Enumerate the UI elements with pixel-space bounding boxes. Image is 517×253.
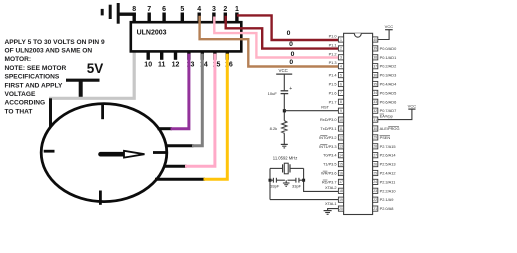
microcontroller U1 AT89C51 body <box>344 33 373 214</box>
svg-text:P2.2/A10: P2.2/A10 <box>380 188 397 193</box>
svg-text:11: 11 <box>339 127 343 131</box>
crystal X1 11.0592 MHz <box>270 156 304 174</box>
svg-text:NOTE: SEE MOTOR: NOTE: SEE MOTOR <box>5 65 67 72</box>
svg-text:P1.1: P1.1 <box>329 42 337 47</box>
svg-text:TxD/P3.1: TxD/P3.1 <box>320 126 336 131</box>
svg-text:0: 0 <box>289 59 293 66</box>
MCU left pin 15 T1/P3.5 <box>323 162 344 167</box>
svg-text:33pF: 33pF <box>292 183 302 188</box>
MCU left pin 18 XTAL2 <box>325 185 344 194</box>
MCU right pin 34 P0.5/AD5 <box>373 90 397 95</box>
svg-text:XTAL1: XTAL1 <box>325 201 337 206</box>
MCU left pin 5 P1.4 <box>329 73 344 78</box>
MCU right pin 35 P0.4/AD4 <box>373 81 397 86</box>
ULN2003 bottom pin 14 <box>200 51 208 68</box>
wire ULN2003 pin 1 to MCU P1.0 (dark red) <box>237 15 339 40</box>
svg-text:16: 16 <box>339 171 343 175</box>
svg-text:27: 27 <box>373 154 377 158</box>
driver U2 ULN2003 body <box>131 22 242 51</box>
svg-text:MOTOR:: MOTOR: <box>5 56 32 63</box>
svg-text:10uF: 10uF <box>268 91 278 96</box>
svg-text:8: 8 <box>340 100 342 104</box>
MCU right pin 33 P0.6/AD6 <box>373 99 397 104</box>
wire crystal left branch <box>269 168 271 199</box>
svg-text:15: 15 <box>339 162 343 166</box>
svg-text:23: 23 <box>373 189 377 193</box>
svg-text:P0.1/AD1: P0.1/AD1 <box>380 55 397 60</box>
svg-text:P2.3/A11: P2.3/A11 <box>380 179 396 184</box>
svg-text:8.2k: 8.2k <box>270 126 278 131</box>
svg-text:P2.1/A9: P2.1/A9 <box>380 197 394 202</box>
capacitor C1 33pF <box>270 178 285 189</box>
power VCC at MCU pin 40 <box>378 24 393 39</box>
svg-text:4: 4 <box>197 6 201 13</box>
svg-text:37: 37 <box>373 65 377 69</box>
MCU right pin 39 P0.0/AD0 <box>373 46 397 51</box>
svg-text:30: 30 <box>373 127 377 131</box>
svg-text:1: 1 <box>235 6 239 13</box>
MCU right pin 23 P2.2/A10 <box>373 188 397 193</box>
svg-text:19: 19 <box>339 198 343 202</box>
svg-text:10: 10 <box>144 62 152 69</box>
MCU left pin 4 P1.3 <box>329 60 344 69</box>
svg-text:T0/P3.4: T0/P3.4 <box>323 153 337 158</box>
svg-text:17: 17 <box>339 180 343 184</box>
MCU right pin 28 P2.7/A15 <box>373 144 396 149</box>
ULN2003 top pin 1 <box>235 6 239 22</box>
power 5V bar symbol <box>66 80 100 97</box>
svg-text:0: 0 <box>289 41 293 48</box>
MCU right pin 29 PSEN <box>373 135 391 140</box>
svg-text:38: 38 <box>373 56 377 60</box>
svg-text:5: 5 <box>340 73 342 77</box>
svg-text:0: 0 <box>287 30 291 37</box>
wire crystal right branch to XTAL2 <box>304 168 339 191</box>
MCU left pin 1 P1.0 <box>329 34 344 43</box>
MCU left pin 6 P1.5 <box>329 81 344 86</box>
svg-text:0: 0 <box>291 51 295 58</box>
svg-text:P1.3: P1.3 <box>329 60 337 65</box>
capacitor C2 33pF <box>288 178 304 189</box>
MCU right pin 30 ALE/PROG <box>373 126 400 131</box>
svg-text:13: 13 <box>339 145 343 149</box>
ULN2003 top pin 7 <box>147 6 151 22</box>
MCU right pin 22 P2.1/A9 <box>373 197 394 202</box>
svg-text:TO THAT: TO THAT <box>5 108 33 115</box>
svg-text:7: 7 <box>147 6 151 13</box>
wire RST node to MCU RST pin <box>284 110 338 112</box>
MCU left pin 20 GND <box>338 206 343 211</box>
svg-text:VOLTAGE: VOLTAGE <box>5 91 36 98</box>
svg-text:3: 3 <box>212 6 216 13</box>
wire 5V rail to ULN2003 pin 9 <box>49 53 134 99</box>
svg-text:18: 18 <box>339 189 343 193</box>
motor tick 3 oclock <box>153 151 166 154</box>
svg-text:5: 5 <box>180 6 184 13</box>
svg-text:7: 7 <box>340 91 342 95</box>
svg-text:XTAL2: XTAL2 <box>325 185 337 190</box>
svg-text:SPECIFICATIONS: SPECIFICATIONS <box>5 74 60 81</box>
note text block <box>5 39 105 116</box>
MCU left pin 9 RST <box>321 105 343 114</box>
svg-text:FIRST AND APPLY: FIRST AND APPLY <box>5 82 63 89</box>
MCU right pin 32 P0.7/AD7 <box>373 108 397 113</box>
ULN2003 top pin 3 <box>212 6 216 22</box>
motor tick 9 oclock <box>44 150 55 153</box>
svg-text:12: 12 <box>172 62 180 69</box>
MCU left pin 8 P1.7 <box>329 99 344 104</box>
svg-text:RST: RST <box>321 105 329 110</box>
svg-text:33pF: 33pF <box>270 183 280 188</box>
ULN2003 top pin 2 <box>223 6 227 22</box>
MCU left pin 12 INT0/P3.2 <box>319 135 344 140</box>
junction RST node <box>283 109 286 112</box>
MCU right pin 31 EA/VPP <box>373 113 393 122</box>
svg-text:P2.5/A13: P2.5/A13 <box>380 162 396 167</box>
ULN2003 top pin 8 <box>132 6 136 22</box>
svg-text:8: 8 <box>132 6 136 13</box>
svg-text:P1.5: P1.5 <box>329 82 337 87</box>
motor M1 body <box>41 104 167 202</box>
svg-text:22: 22 <box>373 198 377 202</box>
svg-text:1: 1 <box>340 38 342 42</box>
wire ULN2003 pin 4 to MCU P1.3 (brown) <box>200 16 339 67</box>
MCU left pin 3 P1.2 <box>329 51 344 60</box>
MCU right pin 38 P0.1/AD1 <box>373 55 397 60</box>
wire ULN2003 pin 2 to MCU P1.1 (dark red) <box>226 16 339 49</box>
ULN2003 top pin 4 <box>197 6 201 22</box>
svg-text:OF ULN2003 AND SAME ON: OF ULN2003 AND SAME ON <box>5 48 93 55</box>
MCU right pin 37 P0.2/AD2 <box>373 64 397 69</box>
svg-text:14: 14 <box>339 154 343 158</box>
svg-text:P1.7: P1.7 <box>329 99 337 104</box>
svg-text:P0.5/AD5: P0.5/AD5 <box>380 90 397 95</box>
MCU left pin 2 P1.1 <box>329 42 344 51</box>
svg-text:11: 11 <box>158 62 166 69</box>
svg-text:4: 4 <box>340 65 342 69</box>
ground at ULN2003 pin 8 <box>102 3 136 24</box>
svg-text:P1.0: P1.0 <box>329 34 338 39</box>
MCU right pin 21 P2.0/A8 <box>373 206 394 211</box>
power VCC at MCU pin 31 EA <box>378 104 416 120</box>
wire motor coil C to ULN pin 15 (black+pink) <box>164 165 187 168</box>
MCU left pin 7 P1.6 <box>329 90 344 95</box>
svg-text:10: 10 <box>339 118 343 122</box>
motor tick 12 oclock <box>101 105 104 120</box>
svg-text:40: 40 <box>373 38 377 42</box>
MCU right pin 36 P0.3/AD3 <box>373 73 397 78</box>
MCU left pin 19 XTAL1 <box>325 197 344 206</box>
svg-text:ACCORDING: ACCORDING <box>5 100 46 107</box>
svg-text:26: 26 <box>373 162 377 166</box>
svg-text:21: 21 <box>373 207 377 211</box>
ground MCU pin 20 <box>324 211 332 215</box>
svg-text:P2.6/A14: P2.6/A14 <box>380 153 397 158</box>
svg-text:VCC: VCC <box>385 24 394 29</box>
ULN2003 bottom pin 12 <box>172 51 180 68</box>
ground crystal center <box>283 180 290 186</box>
MCU right pin 26 P2.5/A13 <box>373 162 396 167</box>
svg-text:33: 33 <box>373 100 377 104</box>
MCU left pin 17 RD/P3.7 <box>322 179 344 184</box>
svg-text:6: 6 <box>340 82 342 86</box>
junction crystal left node <box>269 179 272 182</box>
ULN2003 bottom pin 16 <box>225 51 233 68</box>
capacitor C3 10uF <box>268 86 293 96</box>
svg-text:36: 36 <box>373 73 377 77</box>
MCU right pin 24 P2.3/A11 <box>373 179 396 184</box>
svg-text:P1.6: P1.6 <box>329 90 337 95</box>
ULN2003 bottom pin 11 <box>158 51 166 68</box>
resistor R1 8.2k <box>270 121 287 134</box>
svg-text:31: 31 <box>373 118 377 122</box>
svg-text:11.0592 MHz: 11.0592 MHz <box>273 156 298 161</box>
wire MCU pin 20 GND <box>328 209 339 211</box>
svg-text:ULN2003: ULN2003 <box>137 30 167 37</box>
svg-text:24: 24 <box>373 180 377 184</box>
motor tick 6 oclock <box>99 191 102 205</box>
svg-text:P1.2: P1.2 <box>329 51 337 56</box>
MCU left pin 10 RxD/P3.0 <box>320 117 344 122</box>
wire motor coil A to ULN pin 13 (black+purple) <box>158 127 173 130</box>
svg-text:P0.4/AD4: P0.4/AD4 <box>380 82 397 87</box>
svg-text:28: 28 <box>373 145 377 149</box>
svg-text:P0.2/AD2: P0.2/AD2 <box>380 64 397 69</box>
svg-text:3: 3 <box>340 56 342 60</box>
ULN2003 bottom pin 10 <box>144 51 152 68</box>
svg-text:P0.3/AD3: P0.3/AD3 <box>380 73 397 78</box>
svg-text:39: 39 <box>373 47 377 51</box>
svg-text:P2.7/A15: P2.7/A15 <box>380 144 396 149</box>
wire motor coil D to ULN pin 16 (black+yellow) <box>155 178 205 181</box>
wire 5V rail to motor <box>49 98 52 128</box>
svg-text:34: 34 <box>373 91 377 95</box>
svg-text:12: 12 <box>339 136 343 140</box>
svg-text:P2.0/A8: P2.0/A8 <box>380 206 394 211</box>
svg-text:T1/P3.5: T1/P3.5 <box>323 162 337 167</box>
MCU right pin 27 P2.6/A14 <box>373 153 397 158</box>
svg-text:+: + <box>289 86 292 92</box>
ULN2003 bottom pin 15 <box>213 51 221 68</box>
power VCC reset circuit <box>276 68 292 91</box>
svg-text:20: 20 <box>339 207 343 211</box>
ULN2003 bottom pin 13 <box>187 51 195 68</box>
svg-text:RxD/P3.0: RxD/P3.0 <box>320 117 337 122</box>
svg-text:6: 6 <box>162 6 166 13</box>
svg-text:VCC: VCC <box>279 68 288 73</box>
ULN2003 top pin 6 <box>162 6 166 22</box>
wire resistor to ground <box>283 133 285 144</box>
motor rotor arrow <box>101 151 145 158</box>
svg-text:5V: 5V <box>87 61 104 76</box>
wire ULN2003 pin 3 to MCU P1.2 (pink) <box>214 17 338 58</box>
svg-text:VCC: VCC <box>408 104 417 109</box>
svg-text:APPLY 5 TO 30 VOLTS ON PIN 9: APPLY 5 TO 30 VOLTS ON PIN 9 <box>5 39 105 46</box>
svg-text:25: 25 <box>373 171 377 175</box>
MCU right pin 25 P2.4/A12 <box>373 170 396 175</box>
MCU right pin 40 VCC <box>373 37 378 42</box>
svg-text:2: 2 <box>340 47 342 51</box>
wire cap to RST node <box>283 94 285 121</box>
svg-text:P2.4/A12: P2.4/A12 <box>380 171 396 176</box>
MCU left pin 11 TxD/P3.1 <box>320 126 343 131</box>
MCU left pin 13 INT1/P3.3 <box>319 144 344 149</box>
svg-text:32: 32 <box>373 109 377 113</box>
svg-text:29: 29 <box>373 136 377 140</box>
svg-text:P0.6/AD6: P0.6/AD6 <box>380 99 397 104</box>
svg-text:35: 35 <box>373 82 377 86</box>
junction crystal right node <box>302 179 305 182</box>
svg-text:P0.0/AD0: P0.0/AD0 <box>380 46 397 51</box>
MCU left pin 16 WR/P3.6 <box>321 170 344 175</box>
ground reset circuit <box>281 144 288 148</box>
wire left branch to XTAL1 <box>270 199 338 201</box>
svg-text:P1.4: P1.4 <box>329 73 338 78</box>
ULN2003 top pin 5 <box>180 6 184 22</box>
svg-text:9: 9 <box>340 109 342 113</box>
svg-text:2: 2 <box>223 6 227 13</box>
wire motor coil B to ULN pin 14 (black+gray) <box>166 144 194 147</box>
MCU left pin 14 T0/P3.4 <box>323 153 344 158</box>
